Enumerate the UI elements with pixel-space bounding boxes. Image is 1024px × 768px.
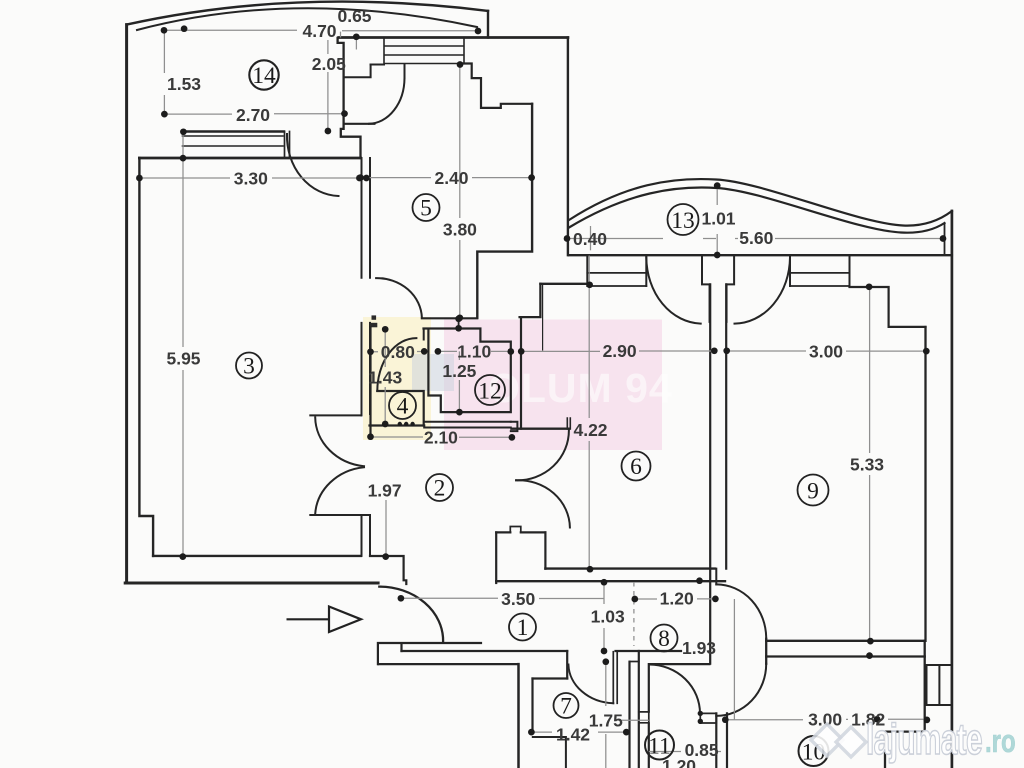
dim 2.90 line: [521, 350, 714, 352]
dashed corridor line: [633, 582, 635, 646]
butterfly 3-2 leaf bottom: [310, 514, 370, 516]
top wall of stairwell block: [339, 36, 568, 39]
svg-text:5.60: 5.60: [739, 228, 773, 248]
butterfly 3-2 leaf top: [310, 414, 361, 416]
wall left of room 6: [520, 317, 522, 429]
window sill extension: [371, 64, 384, 66]
svg-text:OLUM 94: OLUM 94: [488, 365, 673, 411]
balcony 13 inner wavy parapet: [569, 188, 945, 233]
svg-text:12: 12: [478, 379, 502, 405]
dim 5.33 line: [869, 287, 871, 641]
room 4 jamb nub: [370, 323, 378, 328]
svg-text:3: 3: [243, 354, 255, 380]
wall 7/11 line1: [628, 662, 630, 768]
svg-text:1.97: 1.97: [368, 481, 402, 501]
room 10 right wall: [885, 641, 925, 768]
mushroom right bulge: [765, 639, 767, 664]
duct divider: [458, 319, 460, 329]
door 5 arc: [376, 278, 422, 318]
svg-text:3.50: 3.50: [501, 589, 535, 609]
door 10 swing arc (mushroom bottom): [716, 664, 766, 716]
outer bottom wall left part: [125, 582, 378, 585]
outer right wall: [951, 211, 954, 768]
room 6 circle: [622, 452, 651, 481]
butterfly 3-2 arc bottom: [315, 467, 364, 514]
wall room9/room10: [766, 641, 925, 657]
svg-text:4.70: 4.70: [302, 21, 336, 41]
balcony dim line 5.60: [567, 238, 943, 240]
corridor bottom wall line1: [378, 643, 481, 664]
svg-text:7: 7: [560, 694, 572, 720]
door 7 leaf: [613, 652, 617, 704]
svg-text:1.93: 1.93: [682, 638, 716, 658]
small room right wall: [544, 532, 546, 568]
balcony 0.40 tick: [590, 226, 592, 250]
dim 0.85 line: [649, 751, 721, 753]
svg-text:1.20: 1.20: [660, 589, 694, 609]
room 10 circle: [799, 736, 829, 766]
svg-text:1.42: 1.42: [556, 725, 590, 745]
door 7 jamb: [566, 651, 568, 679]
niche in wall: [344, 65, 371, 78]
balcony 14 outer arc: [127, 2, 488, 25]
wall above room 12 upper: [422, 317, 477, 319]
dim 2.10 line: [371, 436, 512, 438]
dim 5.95 line: [182, 132, 184, 557]
pink watermark box: [444, 320, 662, 451]
entrance door arc: [379, 587, 443, 641]
svg-text:.ro: .ro: [985, 723, 1016, 759]
small room left wall: [495, 532, 497, 583]
door 5 jamb nub: [372, 315, 377, 319]
jamb stub above butterfly: [567, 418, 570, 429]
room 12 walls: [428, 330, 510, 413]
closet line in room 6: [542, 284, 544, 350]
butterfly door 2-6 arc top: [516, 430, 569, 480]
dimension dots: [136, 25, 946, 735]
dim 0.65 ticks: [341, 32, 357, 50]
dim 1.01 line: [716, 186, 718, 255]
stairwell window lines: [384, 38, 464, 64]
wall room2/room6 horizontal: [511, 428, 569, 430]
room 3 right wall face 1: [361, 158, 363, 556]
svg-text:11: 11: [648, 734, 671, 760]
svg-text:0.40: 0.40: [573, 229, 607, 249]
dim 1.93 line: [733, 599, 735, 720]
svg-text:4.22: 4.22: [573, 420, 607, 440]
svg-text:1.10: 1.10: [457, 342, 491, 362]
room 4 right wall top piece: [423, 329, 425, 340]
nub right of band: [511, 422, 518, 431]
room 3 circle: [236, 353, 262, 379]
dim 1.20 room 8 line: [635, 598, 716, 600]
balcony 13 inner right edge: [944, 224, 946, 255]
svg-text:2.10: 2.10: [424, 428, 458, 448]
room 7 bottom wall: [533, 737, 566, 768]
room 14 circle: [249, 60, 278, 89]
room2 bottom jog: [370, 556, 406, 584]
room 14 right wall zigzag: [338, 38, 361, 158]
wall 7/11 connect: [630, 661, 639, 663]
building right edge upper: [567, 38, 569, 256]
blue-gray square: [412, 354, 454, 391]
svg-text:2.05: 2.05: [312, 54, 346, 74]
wall 6/9 divider: [710, 284, 726, 568]
corridor bottom wall line2: [402, 650, 682, 652]
corridor top wall: [496, 580, 725, 582]
dim 1.43 line: [384, 329, 386, 424]
svg-text:9: 9: [807, 479, 819, 505]
shaft box in right wall: [927, 665, 952, 705]
svg-text:2.40: 2.40: [434, 168, 468, 188]
svg-text:1.75: 1.75: [589, 711, 623, 731]
notch: [510, 527, 521, 533]
room 9 circle: [798, 475, 829, 506]
room 3 right wall face 2: [369, 158, 371, 556]
room 2 circle: [426, 474, 453, 501]
lajumate logo diamond 2: [836, 727, 866, 757]
room 5 right wall jog: [477, 104, 532, 318]
dim 3.50 line: [401, 597, 604, 599]
svg-text:1: 1: [517, 615, 529, 641]
door 11 arc: [650, 665, 701, 714]
balcony 13 floor: [569, 254, 952, 256]
room 13 circle: [668, 204, 699, 235]
mushroom left wall: [709, 569, 711, 664]
door 7 arc: [568, 665, 613, 704]
room 5 circle: [413, 194, 440, 221]
room 8 circle: [651, 625, 678, 652]
door 9 swing arc (mushroom top): [716, 584, 766, 638]
room 4 door leaf wall: [377, 391, 423, 426]
svg-text:1.01: 1.01: [701, 209, 735, 229]
door 14 arc: [369, 78, 405, 124]
room 11 circle: [645, 731, 674, 760]
svg-text:lajumate: lajumate: [866, 714, 982, 763]
balcony 14 inner arc: [137, 8, 477, 30]
svg-text:14: 14: [252, 63, 276, 89]
wall 7/11 line2: [638, 651, 640, 768]
door 4 arc: [377, 338, 416, 391]
room 7 left wall: [531, 679, 533, 733]
room 3 left inner wall: [139, 158, 153, 556]
dim 1.75 line: [606, 662, 649, 768]
svg-text:3.80: 3.80: [443, 220, 477, 240]
dim 2.40 line: [361, 177, 532, 179]
svg-text:0.65: 0.65: [337, 6, 371, 26]
svg-text:8: 8: [658, 626, 670, 652]
svg-text:13: 13: [671, 208, 695, 234]
corridor bottom wall line3: [379, 663, 710, 665]
svg-text:1.03: 1.03: [591, 607, 625, 627]
room 4 circle: [389, 392, 416, 419]
svg-text:4: 4: [397, 394, 409, 420]
balcony door 9 arc: [735, 258, 791, 324]
svg-text:1.53: 1.53: [167, 74, 201, 94]
.ro watermark text: [985, 723, 1016, 759]
yellow tint over room 4: [363, 317, 431, 440]
room 8 right jamb wall: [648, 664, 650, 768]
door 3 leaf: [285, 132, 290, 158]
door 3 arc: [287, 134, 339, 196]
svg-text:3.00: 3.00: [809, 341, 843, 361]
room 12 circle: [475, 375, 505, 405]
lajumate watermark text: [866, 714, 982, 763]
dim 3.80 line: [459, 65, 461, 318]
dim 4.70 line: [164, 29, 478, 32]
room 3 bottom inner wall: [153, 555, 361, 557]
dim 0.80 line: [371, 351, 425, 353]
window room 3 top: [183, 136, 284, 146]
butterfly 3-2 arc top: [315, 417, 364, 466]
dim 4.22 line: [588, 256, 590, 570]
wall 11/10: [716, 713, 727, 768]
wall above room 12 lower: [424, 327, 481, 329]
wall under door 14: [344, 123, 374, 125]
svg-text:2.90: 2.90: [603, 341, 637, 361]
wall below butterfly with notch: [496, 531, 545, 533]
dim 1.03 line: [603, 582, 605, 651]
mushroom stem: [715, 569, 717, 585]
balcony 13 outer wavy parapet: [569, 179, 952, 226]
room 6 top-left jog: [520, 284, 541, 317]
dim 3.00 room 9 line: [727, 350, 927, 352]
room 9 top-right steps: [850, 287, 926, 327]
svg-text:2.70: 2.70: [236, 105, 270, 125]
dim 1.25 line: [458, 351, 460, 412]
dim 3.00 1.82 room 10 line: [725, 718, 927, 720]
svg-text:5.33: 5.33: [850, 455, 884, 475]
room 4 bottom wall: [370, 424, 425, 426]
svg-text:5.95: 5.95: [166, 349, 200, 369]
dim 1.42 line: [531, 731, 626, 733]
room 4 left wall: [369, 327, 371, 437]
lajumate logo diamond 1: [811, 724, 843, 756]
wall band below room 12: [424, 422, 511, 428]
room 9 right inner wall: [924, 327, 926, 641]
room 9 balcony window: [790, 255, 850, 286]
svg-text:6: 6: [630, 454, 642, 480]
room 6 balcony window: [587, 255, 646, 286]
svg-text:0.80: 0.80: [381, 342, 415, 362]
room 7 circle: [554, 693, 579, 718]
door 11 jamb nub: [639, 712, 649, 723]
butterfly door 2-6 arc bottom: [516, 480, 570, 527]
stairwell steps: [463, 64, 532, 108]
dim 1.53 line: [163, 30, 165, 114]
balcony 14 right edge: [487, 11, 489, 38]
room 6 bottom wall: [545, 567, 714, 569]
door 14 jamb: [404, 65, 406, 79]
svg-text:1.43: 1.43: [368, 368, 402, 388]
entrance arrow: [287, 607, 362, 633]
dim 1.97 line: [385, 500, 387, 556]
balcony door 6 arc: [646, 258, 700, 324]
room 3 top wall: [139, 157, 360, 160]
room 6 top wall: [540, 283, 587, 285]
outer left wall: [125, 25, 128, 582]
wall band room14/room3 top face: [182, 130, 284, 132]
dim 1.10 line: [438, 350, 511, 352]
dim 3.30 line: [139, 177, 359, 179]
room 7 top wall: [533, 677, 568, 679]
svg-text:1.25: 1.25: [442, 361, 476, 381]
balcony door mullion: [702, 255, 734, 284]
outer wall left of room 7: [517, 664, 520, 768]
svg-text:3.30: 3.30: [234, 169, 268, 189]
dim 2.70 line: [164, 113, 344, 115]
svg-text:5: 5: [420, 196, 432, 222]
dim 2.05 line: [327, 40, 329, 131]
door 11 jamb box right: [700, 713, 716, 723]
room 1 circle: [509, 614, 536, 641]
svg-text:2: 2: [434, 476, 446, 502]
